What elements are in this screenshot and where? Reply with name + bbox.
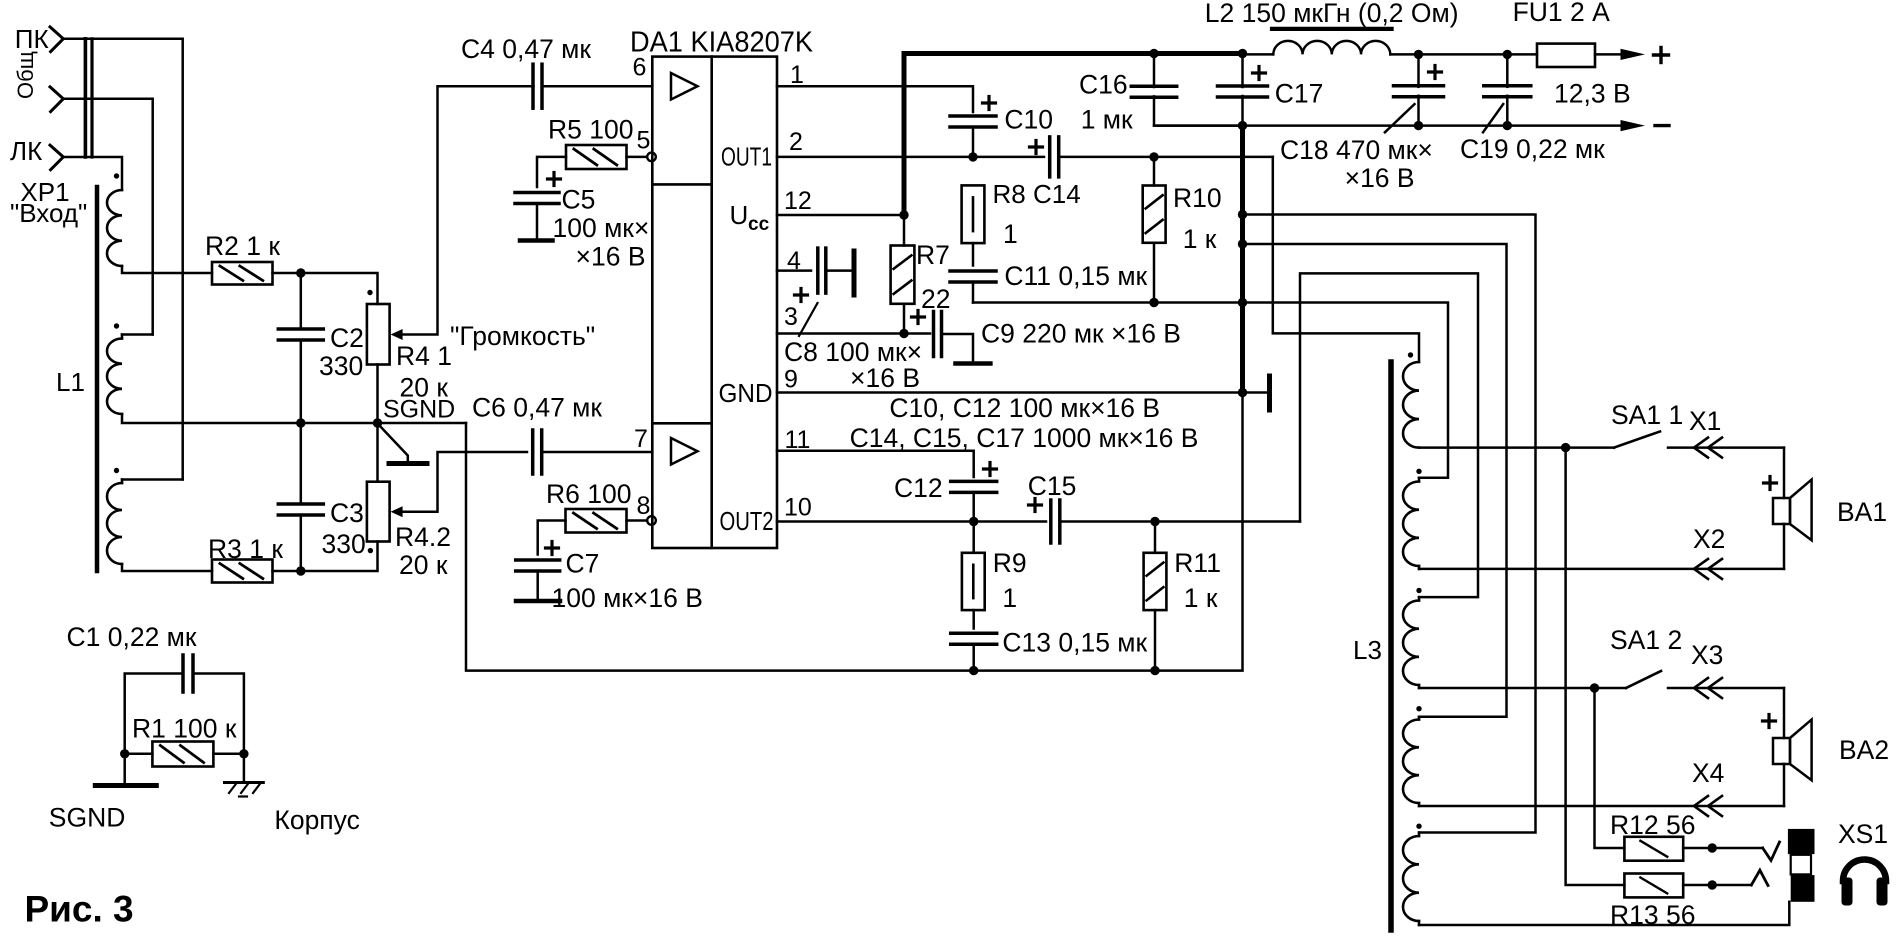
potentiometer R4.2 body xyxy=(367,482,390,542)
capacitor C9 xyxy=(934,312,942,357)
L1 winding 2 phase dot xyxy=(114,323,119,328)
connector X3 xyxy=(1694,678,1722,698)
svg-text:SA1 2: SA1 2 xyxy=(1610,625,1682,655)
label L3 xyxy=(1353,635,1382,665)
L1 winding 3 xyxy=(107,483,122,564)
label OUT2 xyxy=(720,506,774,536)
L3 winding 3 xyxy=(1403,597,1419,688)
wire L3 w3 bottom to switch xyxy=(1419,687,1626,690)
wire C11 to gnd rail xyxy=(972,282,975,303)
wire switch to X1 xyxy=(1668,446,1784,449)
svg-text:C15: C15 xyxy=(1028,471,1077,501)
inductor L2 core bar xyxy=(1272,27,1392,31)
label C3 value 330 xyxy=(322,529,366,559)
wire R10 top xyxy=(1153,157,1156,186)
pin 1 label xyxy=(790,61,804,89)
pin 3 label xyxy=(784,303,798,331)
svg-text:Рис. 3: Рис. 3 xyxy=(25,889,134,930)
wire R11 top xyxy=(1154,522,1157,553)
label BA2 xyxy=(1839,735,1889,765)
label C5 value ×16 В xyxy=(576,242,646,272)
svg-text:9: 9 xyxy=(784,366,798,394)
chassis bar at GND xyxy=(1243,376,1270,410)
svg-text:×16 В: ×16 В xyxy=(850,363,920,393)
node pin12-R7 junction xyxy=(899,210,908,219)
resistor R8 xyxy=(962,185,985,243)
capacitor C11 xyxy=(950,271,996,282)
C8 plus sign xyxy=(795,289,808,302)
svg-text:1 мк: 1 мк xyxy=(1081,105,1133,135)
inductor L2 xyxy=(1273,41,1390,55)
headphones icon xyxy=(1842,860,1888,906)
node R1 left junction xyxy=(120,749,129,758)
svg-text:C1 0,22 мк: C1 0,22 мк xyxy=(67,622,197,652)
R4.1 wiper arrow xyxy=(391,86,534,340)
wire R6 left to C7 xyxy=(538,521,566,555)
wire switch to X3 xyxy=(1668,687,1784,690)
switch SA1.1 blade xyxy=(1614,432,1660,448)
pin 5 open circle xyxy=(647,153,656,162)
wire pin 9 GND xyxy=(777,391,1243,394)
node R2-C2 junction xyxy=(296,268,305,277)
node C12-pin10 junction xyxy=(969,517,978,526)
wire R7 top xyxy=(903,215,906,246)
label C7 xyxy=(566,549,600,579)
svg-text:C13 0,15 мк: C13 0,15 мк xyxy=(1002,628,1147,658)
pin 8 open circle xyxy=(647,516,656,525)
svg-text:BA2: BA2 xyxy=(1839,735,1889,765)
wire R7 bottom xyxy=(903,304,906,334)
wire R5 left to C5 xyxy=(537,157,566,187)
svg-text:R5 100: R5 100 xyxy=(548,115,633,145)
C18 plus sign xyxy=(1429,66,1442,79)
label ЛК xyxy=(10,136,42,166)
label R6 100 xyxy=(546,479,631,509)
node common-B junction xyxy=(1238,239,1247,248)
label C2 value 330 xyxy=(319,351,363,381)
svg-text:U: U xyxy=(730,200,749,230)
label C3 xyxy=(330,498,364,528)
connector X1 xyxy=(1694,438,1722,458)
C18 label pointer xyxy=(1385,104,1415,132)
wire L1 w2 bottom / SGND rail xyxy=(122,414,466,423)
svg-text:C10, C12 100 мк×16 В: C10, C12 100 мк×16 В xyxy=(889,393,1160,423)
R4.2 wiper arrow xyxy=(391,452,527,517)
svg-text:12,3 В: 12,3 В xyxy=(1554,79,1631,109)
svg-text:DA1 KIA8207K: DA1 KIA8207K xyxy=(630,27,814,59)
label XS1 xyxy=(1838,819,1888,849)
capacitor C15 xyxy=(1051,500,1060,543)
label BA1 xyxy=(1837,497,1887,527)
svg-text:R12 56: R12 56 xyxy=(1610,810,1695,840)
svg-text:Общ: Общ xyxy=(13,51,38,99)
label C12 xyxy=(894,473,943,503)
jack tip contact xyxy=(1763,842,1780,860)
wire L3 w5 bottom to jack sleeve xyxy=(1419,902,1789,925)
wire common loop A to L3 w5 xyxy=(1243,215,1536,833)
svg-text:C10: C10 xyxy=(1004,105,1053,135)
label R4.2 xyxy=(395,522,451,552)
label L1 xyxy=(56,367,85,397)
minus output arrow xyxy=(1621,120,1646,131)
node SGND junction xyxy=(373,418,382,427)
transformer L1 core xyxy=(95,187,100,571)
R4.2 track end dot xyxy=(368,548,373,553)
svg-text:X1: X1 xyxy=(1689,406,1721,436)
L3 winding 5 xyxy=(1403,833,1419,926)
wire to SGND bar xyxy=(123,754,126,783)
svg-text:R9: R9 xyxy=(993,548,1027,578)
label R3 1 к xyxy=(208,534,283,564)
pin 4 label xyxy=(787,247,801,275)
svg-text:C17: C17 xyxy=(1275,79,1324,109)
wire R9 top xyxy=(972,522,975,553)
wire pin 4 xyxy=(777,269,811,272)
svg-text:330: 330 xyxy=(319,351,363,381)
label C4 0,47 мк xyxy=(461,34,591,64)
capacitor C18 xyxy=(1394,54,1444,125)
wire R11 bottom xyxy=(1154,610,1157,671)
pin 12 label xyxy=(784,187,812,215)
wire bus to L2 xyxy=(1243,53,1274,56)
chassis ground Корпус xyxy=(225,783,264,797)
label R4 1 xyxy=(396,341,452,371)
svg-text:1: 1 xyxy=(1003,219,1018,249)
svg-text:R6 100: R6 100 xyxy=(546,479,631,509)
svg-text:12: 12 xyxy=(784,187,812,215)
label R12 56 xyxy=(1610,810,1695,840)
svg-text:C4 0,47 мк: C4 0,47 мк xyxy=(461,34,591,64)
pin 7 label xyxy=(634,425,648,453)
wire L1 w3 top xyxy=(122,480,183,484)
label Корпус xyxy=(274,805,359,835)
svg-text:1: 1 xyxy=(1002,583,1017,613)
wire L1 w1 bottom to R2 xyxy=(122,266,212,273)
capacitor C10 xyxy=(950,116,996,127)
capacitor C1 xyxy=(183,655,193,692)
label C16 xyxy=(1079,70,1128,100)
label R9 value 1 xyxy=(1002,583,1017,613)
wire pin 1 to C10 xyxy=(777,86,973,112)
svg-text:C11 0,15 мк: C11 0,15 мк xyxy=(1004,261,1147,291)
label Общ (vertical) xyxy=(13,51,38,99)
label ПК xyxy=(15,24,49,54)
capacitor C8 xyxy=(818,248,826,293)
label R13 56 xyxy=(1610,900,1695,930)
C9 plus sign xyxy=(912,311,925,324)
speaker BA2 xyxy=(1773,720,1812,781)
C10 plus sign xyxy=(983,97,996,110)
label C16 value 1 мк xyxy=(1081,105,1133,135)
fuse FU1 xyxy=(1537,44,1595,67)
svg-text:C12: C12 xyxy=(894,473,943,503)
wire R4.1 bottom to SGND xyxy=(376,365,379,424)
signal ground at R4 wiper xyxy=(379,425,428,464)
wire C15 to loop wire xyxy=(1060,520,1300,523)
label X1 xyxy=(1689,406,1721,436)
C14 plus sign xyxy=(1030,141,1043,154)
wire C12 to pin10 net xyxy=(972,492,975,521)
wire C7 to ground xyxy=(536,571,539,599)
svg-text:R4.2: R4.2 xyxy=(395,522,451,552)
svg-text:R4 1: R4 1 xyxy=(396,341,452,371)
label 20 к xyxy=(400,373,449,403)
svg-text:R1 100 к: R1 100 к xyxy=(132,714,237,744)
svg-text:C5: C5 xyxy=(562,185,596,215)
L1 winding 1 xyxy=(107,190,122,266)
resistor R7 xyxy=(891,246,915,304)
label C11 0,15 мк xyxy=(1004,261,1147,291)
wire OUT1 loop to L3 w1 xyxy=(1273,157,1419,362)
capacitor C6 xyxy=(533,430,542,474)
wire R3 to R4.2 bottom xyxy=(273,542,378,572)
label C10, C12 100 мк×16 В xyxy=(889,393,1160,423)
label ×16 В xyxy=(850,363,920,393)
svg-text:22: 22 xyxy=(921,284,950,314)
node GND star junction xyxy=(1238,388,1247,397)
C19 label pointer xyxy=(1483,104,1503,132)
wire SA1.1 to R13 xyxy=(1566,448,1625,885)
label R11 value 1 к xyxy=(1184,583,1218,613)
svg-text:5: 5 xyxy=(637,127,651,155)
label 20 к xyxy=(399,550,448,580)
pin 10 label xyxy=(784,494,812,522)
wire common loop B to L3 w4 xyxy=(1243,244,1507,717)
node R11-rail junction xyxy=(1150,666,1159,675)
node C18 top junction xyxy=(1414,50,1423,59)
node R13-contact junction xyxy=(1708,880,1717,889)
capacitor C13 xyxy=(951,633,997,644)
label R5 100 xyxy=(548,115,633,145)
svg-text:L3: L3 xyxy=(1353,635,1382,665)
wire to chassis xyxy=(243,754,246,781)
node C14-R10 junction xyxy=(1149,152,1158,161)
ground bus thick vertical xyxy=(1240,126,1245,393)
wire R5 to pin 5 circle xyxy=(627,156,647,159)
wire L1 w2 top xyxy=(122,335,153,339)
wire BA2 to X4 xyxy=(1783,764,1786,806)
wire C13 bottom xyxy=(972,644,975,670)
wire X2 return to L3 w2 xyxy=(1419,568,1784,571)
label R11 xyxy=(1174,548,1221,578)
label C6 0,47 мк xyxy=(472,393,602,423)
wire R8 to C11 xyxy=(972,243,975,265)
svg-text:X4: X4 xyxy=(1692,758,1724,788)
C5 plus sign xyxy=(548,173,561,186)
resistor R5 xyxy=(566,145,627,169)
node common-A junction xyxy=(1238,210,1247,219)
wire R13 to jack ring contact xyxy=(1683,884,1751,887)
label OUT1 xyxy=(721,142,772,172)
label XP1 xyxy=(20,177,69,207)
svg-text:1: 1 xyxy=(790,61,804,89)
resistor R6 xyxy=(566,509,627,533)
wire C9 to ground xyxy=(942,334,974,361)
wire C5 to ground xyxy=(536,204,539,239)
node bus-C16 junction xyxy=(1149,49,1158,58)
wire pin 3 xyxy=(777,332,930,335)
wire OUT2 loop to L3 w3 xyxy=(1300,273,1478,597)
svg-text:20 к: 20 к xyxy=(399,550,448,580)
capacitor C2 xyxy=(278,273,323,423)
wire R6 to pin 8 circle xyxy=(627,519,647,522)
node C19 bottom junction xyxy=(1503,121,1512,130)
signal ground bar SGND xyxy=(95,783,156,788)
transformer L3 core xyxy=(1388,362,1394,930)
wire C6 to pin 7 xyxy=(542,451,653,454)
svg-text:C2: C2 xyxy=(330,323,364,353)
capacitor C12 xyxy=(951,481,997,492)
wire L1 w3 bottom to R3 xyxy=(122,564,212,571)
amplifier triangle 1 xyxy=(671,73,698,100)
label GND xyxy=(719,378,773,408)
L3 winding 4 xyxy=(1403,717,1419,806)
L3 winding 1 xyxy=(1403,362,1419,448)
label SA1 1 xyxy=(1611,400,1683,430)
resistor R1 xyxy=(152,742,213,767)
svg-text:1 к: 1 к xyxy=(1183,224,1217,254)
L1 winding 3 phase dot xyxy=(114,468,119,473)
svg-text:×16 В: ×16 В xyxy=(576,242,646,272)
signal ground bar C8 (vertical) xyxy=(826,251,854,295)
R4.1 track end dot xyxy=(367,290,372,295)
switch SA1.2 blade xyxy=(1626,671,1661,688)
node C2-SGND junction xyxy=(296,418,305,427)
node minus rail C17 junction xyxy=(1238,121,1247,130)
node C3-R3 junction xyxy=(296,566,305,575)
svg-text:330: 330 xyxy=(322,529,366,559)
label minus xyxy=(1655,124,1669,127)
capacitor C16 xyxy=(1131,54,1242,126)
C15 plus sign xyxy=(1029,499,1042,512)
wire R9 to C13 xyxy=(972,610,975,628)
wire ПК to down corner xyxy=(63,39,182,480)
label DA1 KIA8207K xyxy=(630,27,814,59)
svg-text:100 мк×: 100 мк× xyxy=(553,213,650,243)
svg-text:Корпус: Корпус xyxy=(274,805,359,835)
capacitor C7 xyxy=(516,560,560,571)
caption Рис. 3 xyxy=(25,889,134,930)
node C19 top junction xyxy=(1503,50,1512,59)
svg-text:R3 1 к: R3 1 к xyxy=(208,534,283,564)
wire X1 to BA1 xyxy=(1783,448,1786,498)
wire gnd rail R8/R10 xyxy=(973,301,1243,304)
node C13-rail junction xyxy=(969,666,978,675)
BA2 plus sign xyxy=(1763,715,1776,728)
capacitor C17 xyxy=(1218,54,1268,126)
wire L3 w1 bottom to switch xyxy=(1419,446,1614,449)
svg-text:SGND: SGND xyxy=(383,396,455,424)
L3 winding 5 phase dot xyxy=(1416,824,1421,829)
L3 winding 3 phase dot xyxy=(1416,588,1421,593)
label C15 xyxy=(1028,471,1077,501)
svg-text:X3: X3 xyxy=(1691,640,1723,670)
L3 winding 2 xyxy=(1403,478,1419,569)
wire R2 to R4.1 top xyxy=(273,273,378,304)
wire C1 left to R1 left xyxy=(125,674,183,754)
capacitor C19 xyxy=(1484,54,1531,125)
svg-text:L1: L1 xyxy=(56,367,85,397)
resistor R3 xyxy=(212,560,273,583)
svg-text:SGND: SGND xyxy=(49,803,126,833)
wire fuse to plus output xyxy=(1595,53,1622,56)
svg-text:BA1: BA1 xyxy=(1837,497,1887,527)
label C7 value xyxy=(552,583,703,613)
C17 plus sign xyxy=(1253,67,1266,80)
resistor R2 xyxy=(212,262,273,285)
minus rail wire xyxy=(1154,124,1622,127)
label C17 xyxy=(1275,79,1324,109)
label C19 0,22 мк xyxy=(1460,134,1605,164)
svg-text:×16 В: ×16 В xyxy=(1345,163,1415,193)
resistor R11 xyxy=(1144,553,1167,610)
label "Громкость" xyxy=(450,321,595,351)
signal ground bar C7 xyxy=(516,599,560,604)
amplifier triangle 2 xyxy=(671,438,698,465)
speaker BA1 xyxy=(1773,480,1812,541)
label X4 xyxy=(1692,758,1724,788)
L1 winding 1 phase dot xyxy=(114,173,119,178)
capacitor C4 xyxy=(533,64,542,108)
label R8 value 1 xyxy=(1003,219,1018,249)
label ×16 В xyxy=(1345,163,1415,193)
label R10 xyxy=(1173,183,1222,213)
svg-text:10: 10 xyxy=(784,494,812,522)
wire R10 bottom xyxy=(1153,243,1156,303)
label R10 value 1 к xyxy=(1183,224,1217,254)
label C5 value 100 мк× xyxy=(553,213,650,243)
label R7 xyxy=(916,240,950,270)
label Ucc xyxy=(730,200,770,235)
wire C10 to pin2 net xyxy=(972,127,975,157)
wire C14 to loop wire xyxy=(1059,156,1273,159)
node gnd rail to bus junction xyxy=(1238,298,1247,307)
node R10-gnd junction xyxy=(1149,298,1158,307)
power bus Ucc thick xyxy=(904,54,1243,216)
svg-text:XS1: XS1 xyxy=(1838,819,1888,849)
signal ground bar C5 xyxy=(520,238,553,243)
pin 9 label xyxy=(784,366,798,394)
wire C4 to pin 6 xyxy=(542,85,652,88)
svg-text:OUT1: OUT1 xyxy=(721,142,772,172)
svg-text:R11: R11 xyxy=(1174,548,1221,578)
svg-text:1 к: 1 к xyxy=(1184,583,1218,613)
pin 5 label xyxy=(637,127,651,155)
connector X4 xyxy=(1694,796,1722,816)
label SGND xyxy=(49,803,126,833)
svg-text:OUT2: OUT2 xyxy=(720,506,774,536)
svg-text:"Вход": "Вход" xyxy=(10,198,87,228)
capacitor C14 xyxy=(1050,137,1059,177)
svg-text:GND: GND xyxy=(719,378,773,408)
C7 plus sign xyxy=(546,542,559,555)
wire common loop to L3 w2 xyxy=(1243,303,1449,478)
resistor R13 xyxy=(1624,874,1683,898)
svg-text:C7: C7 xyxy=(566,549,600,579)
pin 2 label xyxy=(789,128,803,156)
label R8 C14 xyxy=(993,179,1081,209)
potentiometer R4.1 body xyxy=(367,304,390,365)
jack ring contact xyxy=(1751,870,1768,885)
node R7-pin3 junction xyxy=(899,329,908,338)
op-amp IC DA1 body xyxy=(652,57,777,548)
pin 6 label xyxy=(633,54,647,82)
label L2 150 мкГн (0,2 Ом) xyxy=(1205,0,1459,28)
resistor R9 xyxy=(962,553,985,610)
label C5 xyxy=(562,185,596,215)
svg-text:C18 470 мк×: C18 470 мк× xyxy=(1280,135,1433,165)
resistor R12 xyxy=(1624,837,1683,861)
